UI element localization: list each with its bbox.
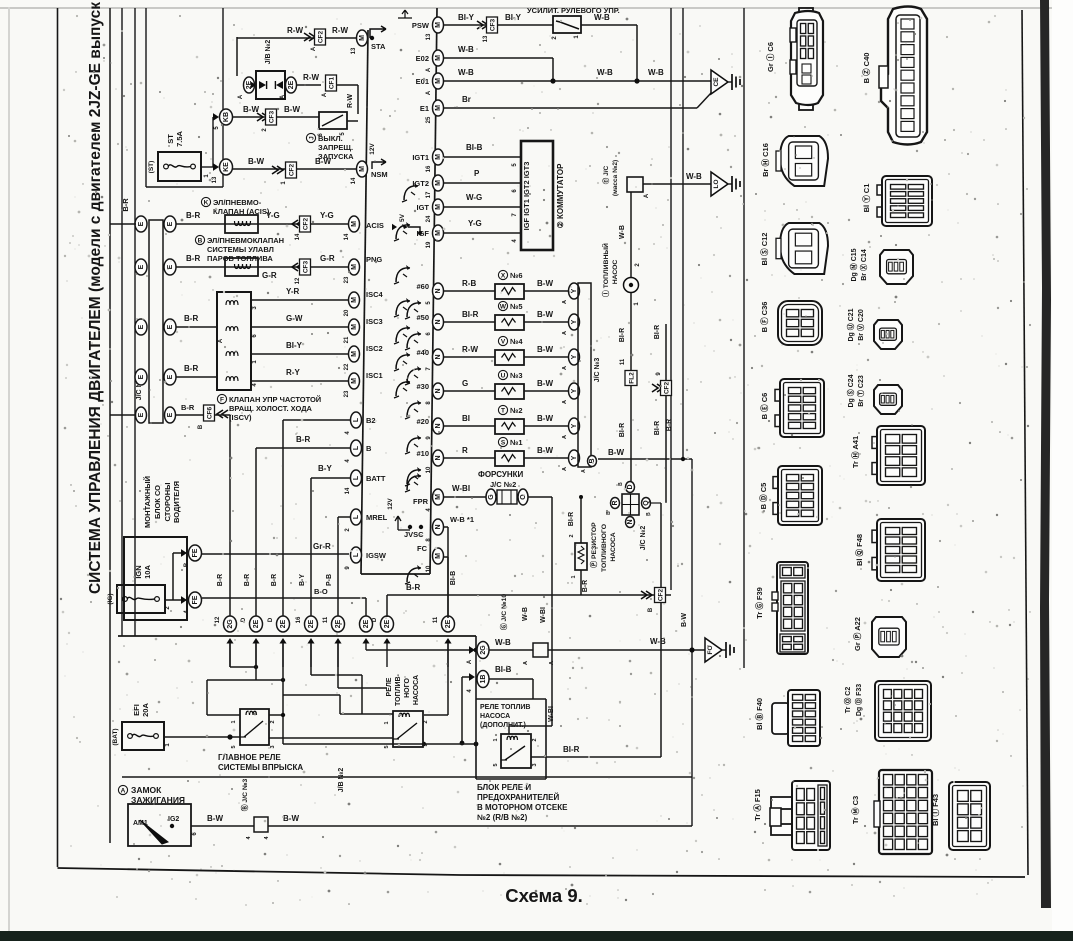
svg-text:BI-B: BI-B: [466, 143, 483, 152]
svg-text:№4: №4: [510, 337, 523, 346]
svg-text:L: L: [353, 417, 360, 422]
svg-text:B-Y: B-Y: [318, 464, 332, 473]
svg-text:2E: 2E: [363, 619, 370, 628]
svg-text:B-W: B-W: [537, 379, 553, 388]
svg-text:B Ⓕ C36: B Ⓕ C36: [759, 302, 769, 333]
svg-text:A: A: [218, 338, 224, 343]
svg-text:N: N: [435, 354, 442, 359]
svg-text:BI-R: BI-R: [462, 310, 479, 319]
svg-text:(ISCV): (ISCV): [229, 413, 252, 422]
svg-text:Y-R: Y-R: [286, 287, 300, 296]
svg-text:СИСТЕМЫ ВПРЫСКА: СИСТЕМЫ ВПРЫСКА: [218, 763, 303, 772]
svg-text:14: 14: [344, 233, 350, 240]
svg-text:CF2: CF2: [318, 30, 325, 43]
svg-text:10A: 10A: [143, 565, 152, 579]
svg-text:CF2: CF2: [658, 588, 665, 601]
svg-text:(IG): (IG): [107, 593, 114, 604]
svg-text:12: 12: [295, 277, 301, 284]
svg-text:25: 25: [426, 116, 432, 123]
svg-text:N: N: [435, 524, 442, 529]
svg-text:РЕЛЕ: РЕЛЕ: [386, 677, 393, 696]
svg-text:ЗАМОК: ЗАМОК: [131, 785, 162, 795]
svg-text:ISC3: ISC3: [366, 317, 383, 326]
svg-text:N: N: [435, 455, 442, 460]
svg-text:Ⓖ J/C №10: Ⓖ J/C №10: [499, 594, 508, 631]
svg-text:M: M: [351, 351, 358, 357]
svg-text:#40: #40: [416, 348, 429, 357]
svg-text:IGT: IGT: [417, 203, 430, 212]
svg-text:E02: E02: [416, 54, 429, 63]
svg-text:B-R: B-R: [406, 583, 420, 592]
svg-text:Dg Ⓤ C21: Dg Ⓤ C21: [846, 308, 855, 341]
svg-text:KE: KE: [223, 162, 230, 172]
svg-text:Bl Ⓢ C12: Bl Ⓢ C12: [759, 233, 769, 266]
svg-text:R: R: [462, 446, 468, 455]
svg-text:21: 21: [344, 336, 350, 343]
svg-text:#50: #50: [416, 313, 429, 322]
svg-text:M: M: [351, 324, 358, 330]
svg-text:B-W: B-W: [537, 414, 553, 423]
svg-text:M: M: [435, 180, 442, 186]
svg-text:(ST): (ST): [148, 161, 155, 174]
svg-text:2E: 2E: [280, 619, 287, 628]
svg-text:5V: 5V: [399, 213, 406, 222]
svg-text:A: A: [121, 787, 126, 794]
svg-text:E1: E1: [420, 104, 429, 113]
svg-text:D: D: [268, 617, 274, 622]
svg-text:(BAT): (BAT): [112, 728, 119, 745]
svg-text:BI-R: BI-R: [568, 512, 575, 526]
svg-text:J/B №2: J/B №2: [337, 768, 345, 793]
svg-text:B: B: [646, 512, 652, 516]
svg-text:17: 17: [426, 191, 432, 198]
svg-text:Y: Y: [571, 388, 578, 393]
svg-text:3: 3: [532, 763, 538, 766]
svg-text:E: E: [167, 324, 174, 329]
svg-text:LO: LO: [713, 179, 720, 188]
svg-text:Y: Y: [571, 455, 578, 460]
svg-text:20: 20: [344, 309, 350, 316]
svg-text:B-R: B-R: [186, 211, 200, 220]
svg-text:N: N: [435, 388, 442, 393]
svg-text:11: 11: [433, 616, 439, 623]
svg-text:M: M: [435, 22, 442, 28]
svg-text:Ⓑ J/C: Ⓑ J/C: [601, 165, 610, 184]
svg-text:БЛОК РЕЛЕ И: БЛОК РЕЛЕ И: [477, 783, 531, 792]
svg-text:W: W: [500, 303, 507, 310]
svg-text:MREL: MREL: [366, 513, 388, 522]
svg-text:W-BI: W-BI: [548, 706, 555, 722]
svg-text:FE: FE: [192, 595, 199, 604]
svg-text:CF3: CF3: [303, 260, 310, 273]
svg-text:В МОТОРНОМ ОТСЕКЕ: В МОТОРНОМ ОТСЕКЕ: [477, 803, 568, 812]
svg-text:A: A: [426, 67, 432, 72]
svg-text:A: A: [644, 193, 650, 198]
svg-text:19: 19: [426, 241, 432, 248]
svg-text:12: 12: [215, 616, 221, 623]
svg-text:1: 1: [571, 575, 577, 578]
svg-text:Y: Y: [571, 319, 578, 324]
svg-text:МОНТАЖНЫЙ: МОНТАЖНЫЙ: [143, 476, 152, 528]
svg-text:Tr Ⓜ C3: Tr Ⓜ C3: [850, 796, 860, 824]
svg-text:P-B: P-B: [326, 574, 333, 586]
svg-text:B: B: [366, 444, 372, 453]
svg-text:R: R: [612, 500, 619, 505]
svg-text:13: 13: [426, 33, 432, 40]
svg-text:G: G: [488, 494, 495, 500]
svg-text:ISC2: ISC2: [366, 344, 383, 353]
svg-text:B Ⓩ C40: B Ⓩ C40: [861, 53, 871, 84]
svg-text:N: N: [435, 423, 442, 428]
svg-text:W-B *1: W-B *1: [450, 515, 474, 524]
svg-text:FC: FC: [417, 544, 428, 553]
svg-text:E: E: [167, 412, 174, 417]
svg-text:L: L: [353, 445, 360, 450]
svg-text:B-R: B-R: [244, 574, 251, 586]
svg-text:W-G: W-G: [466, 193, 482, 202]
svg-text:J/C №3: J/C №3: [593, 358, 601, 383]
svg-text:1: 1: [493, 738, 499, 741]
svg-text:Br: Br: [462, 95, 471, 104]
svg-text:1: 1: [384, 721, 390, 724]
svg-text:J: J: [308, 136, 315, 140]
svg-text:E: E: [167, 221, 174, 226]
svg-text:11: 11: [323, 616, 329, 623]
svg-text:Y: Y: [571, 354, 578, 359]
svg-text:Dg Ⓝ C15: Dg Ⓝ C15: [849, 248, 858, 281]
svg-text:NSM: NSM: [371, 170, 388, 179]
svg-text:L: L: [353, 475, 360, 480]
svg-text:ВЫКЛ.: ВЫКЛ.: [318, 134, 343, 143]
svg-text:B-R: B-R: [121, 198, 130, 212]
svg-text:B-W: B-W: [243, 105, 259, 114]
svg-text:ISC4: ISC4: [366, 290, 384, 299]
svg-text:Bl Ⓨ C1: Bl Ⓨ C1: [861, 184, 871, 213]
svg-text:X: X: [501, 272, 506, 279]
svg-text:A: A: [238, 94, 244, 99]
svg-text:2E: 2E: [253, 619, 260, 628]
svg-text:СИСТЕМЫ УЛАВЛ: СИСТЕМЫ УЛАВЛ: [207, 245, 274, 254]
svg-text:M: M: [351, 378, 358, 384]
svg-text:2: 2: [270, 720, 276, 723]
svg-text:B: B: [198, 237, 203, 244]
svg-text:Br Ⓧ C14: Br Ⓧ C14: [859, 249, 868, 281]
svg-text:Tr Ⓗ A41: Tr Ⓗ A41: [850, 436, 860, 468]
svg-text:12V: 12V: [387, 498, 394, 510]
svg-text:3: 3: [423, 743, 429, 746]
svg-text:W-B: W-B: [648, 68, 664, 77]
svg-text:№2: №2: [510, 406, 523, 415]
svg-text:KB: KB: [223, 112, 230, 122]
svg-text:2G: 2G: [480, 645, 487, 655]
svg-text:12V: 12V: [369, 143, 376, 155]
svg-text:ЗАПРЕЩ.: ЗАПРЕЩ.: [318, 143, 353, 152]
svg-text:M: M: [435, 105, 442, 111]
svg-text:M: M: [435, 154, 442, 160]
svg-text:Q: Q: [643, 500, 650, 506]
svg-text:A: A: [562, 300, 568, 304]
svg-text:M: M: [351, 297, 358, 303]
svg-text:Tr Ⓞ C2: Tr Ⓞ C2: [843, 687, 852, 714]
svg-text:CF2: CF2: [303, 217, 310, 230]
svg-text:B Ⓔ C6: B Ⓔ C6: [759, 393, 769, 420]
svg-text:A: A: [562, 366, 568, 370]
svg-text:№2 (R/B №2): №2 (R/B №2): [477, 813, 528, 822]
svg-text:CF2: CF2: [289, 163, 296, 176]
svg-text:E: E: [138, 264, 145, 269]
svg-text:14: 14: [351, 177, 357, 184]
svg-text:G-R: G-R: [320, 254, 335, 263]
svg-text:20A: 20A: [141, 703, 150, 717]
svg-text:B-W: B-W: [537, 345, 553, 354]
svg-text:A: A: [467, 659, 473, 664]
svg-text:M: M: [435, 78, 442, 84]
svg-text:B: B: [618, 482, 624, 486]
svg-text:BI-B: BI-B: [450, 571, 457, 585]
svg-text:#60: #60: [416, 282, 429, 291]
svg-text:F: F: [220, 396, 224, 403]
svg-text:ГЛАВНОЕ РЕЛЕ: ГЛАВНОЕ РЕЛЕ: [218, 753, 281, 762]
svg-text:K: K: [204, 199, 209, 206]
svg-text:FL2: FL2: [629, 372, 636, 384]
svg-text:Y-G: Y-G: [468, 219, 482, 228]
svg-text:Bl Ⓘ F43: Bl Ⓘ F43: [930, 794, 940, 826]
svg-text:24: 24: [426, 215, 432, 222]
svg-text:Bl Ⓑ F40: Bl Ⓑ F40: [754, 698, 764, 730]
svg-text:ФОРСУНКИ: ФОРСУНКИ: [478, 470, 523, 479]
svg-text:M: M: [351, 221, 358, 227]
svg-text:5: 5: [384, 745, 390, 748]
svg-text:M: M: [351, 264, 358, 270]
svg-text:A: A: [311, 46, 317, 51]
svg-text:A: A: [562, 435, 568, 439]
svg-text:FPR: FPR: [413, 497, 429, 506]
svg-text:№5: №5: [510, 302, 523, 311]
svg-text:1B: 1B: [480, 675, 487, 684]
svg-text:ПАРОВ ТОПЛИВА: ПАРОВ ТОПЛИВА: [207, 254, 273, 263]
svg-text:② КОММУТАТОР: ② КОММУТАТОР: [556, 163, 565, 228]
svg-text:Tr Ⓖ F39: Tr Ⓖ F39: [754, 587, 764, 619]
svg-text:W-B: W-B: [458, 68, 474, 77]
svg-text:14: 14: [295, 233, 301, 240]
svg-text:G: G: [462, 379, 468, 388]
svg-text:ПРЕДОХРАНИТЕЛЕЙ: ПРЕДОХРАНИТЕЛЕЙ: [477, 793, 559, 802]
svg-text:A: A: [549, 661, 555, 665]
svg-text:11: 11: [620, 358, 626, 365]
svg-text:A: A: [562, 331, 568, 335]
svg-text:РЕЛЕ ТОПЛИВ: РЕЛЕ ТОПЛИВ: [480, 704, 530, 711]
svg-text:23: 23: [344, 390, 350, 397]
svg-text:R-B: R-B: [462, 279, 476, 288]
svg-text:Br Ⓗ C16: Br Ⓗ C16: [760, 143, 770, 177]
svg-text:НАСОСА: НАСОСА: [480, 713, 510, 720]
svg-text:B-W: B-W: [284, 105, 300, 114]
svg-text:U: U: [501, 372, 506, 379]
svg-text:PSW: PSW: [412, 21, 430, 30]
svg-text:N: N: [435, 288, 442, 293]
svg-text:Ⓘ ТОПЛИВНЫЙ: Ⓘ ТОПЛИВНЫЙ: [601, 243, 610, 297]
svg-text:BI-R: BI-R: [654, 421, 661, 435]
svg-text:10: 10: [426, 466, 432, 473]
svg-text:ISC1: ISC1: [366, 371, 383, 380]
svg-text:B-R: B-R: [666, 419, 673, 431]
svg-text:22: 22: [344, 363, 350, 370]
svg-text:B-R: B-R: [582, 580, 589, 592]
svg-text:D: D: [627, 484, 634, 489]
svg-text:BI-R: BI-R: [619, 328, 626, 342]
svg-text:V: V: [501, 338, 506, 345]
svg-text:N: N: [627, 519, 634, 524]
svg-text:B-R: B-R: [184, 364, 198, 373]
svg-text:ST: ST: [166, 134, 175, 144]
svg-text:Gr-R: Gr-R: [313, 542, 331, 551]
svg-text:Tr Ⓐ F15: Tr Ⓐ F15: [752, 789, 762, 821]
svg-text:1: 1: [231, 720, 237, 723]
svg-text:ЭЛ/ПНЕВМОКЛАПАН: ЭЛ/ПНЕВМОКЛАПАН: [207, 236, 284, 245]
svg-text:B-R: B-R: [296, 435, 310, 444]
svg-text:#30: #30: [416, 382, 429, 391]
svg-text:E: E: [138, 221, 145, 226]
svg-text:B-W: B-W: [248, 157, 264, 166]
svg-text:НОГО: НОГО: [404, 678, 411, 698]
svg-text:T: T: [501, 407, 505, 414]
svg-text:B-W: B-W: [537, 310, 553, 319]
svg-text:IGSW: IGSW: [366, 551, 387, 560]
svg-text:13: 13: [212, 176, 218, 183]
svg-text:BI-Y: BI-Y: [286, 341, 303, 350]
svg-text:CF6: CF6: [207, 406, 214, 419]
svg-text:M: M: [359, 166, 366, 172]
svg-text:S: S: [501, 439, 506, 446]
svg-text:ACIS: ACIS: [366, 221, 384, 230]
svg-text:КЛАПАН УПР ЧАСТОТОЙ: КЛАПАН УПР ЧАСТОТОЙ: [229, 395, 321, 404]
svg-text:Br Ⓥ C20: Br Ⓥ C20: [856, 309, 865, 341]
svg-text:2G: 2G: [227, 619, 234, 629]
svg-text:G-W: G-W: [286, 314, 303, 323]
svg-text:IGT1: IGT1: [412, 153, 429, 162]
svg-text:M: M: [435, 494, 442, 500]
svg-text:2E: 2E: [308, 619, 315, 628]
svg-text:M: M: [359, 35, 366, 41]
svg-text:НАСОСА: НАСОСА: [413, 675, 420, 705]
svg-text:D: D: [372, 617, 378, 622]
svg-text:(масса №2): (масса №2): [612, 160, 619, 196]
svg-text:W-BI: W-BI: [452, 484, 470, 493]
svg-text:B-R: B-R: [217, 574, 224, 586]
svg-text:Ⓟ РЕЗИСТОР: Ⓟ РЕЗИСТОР: [589, 522, 598, 568]
svg-text:R-W: R-W: [303, 73, 319, 82]
svg-text:B-W: B-W: [537, 279, 553, 288]
svg-text:N: N: [435, 319, 442, 324]
svg-text:J/C №2: J/C №2: [639, 526, 647, 551]
svg-text:НАСОС: НАСОС: [612, 260, 619, 285]
svg-text:CE: CE: [713, 77, 720, 87]
svg-text:ВОДИТЕЛЯ: ВОДИТЕЛЯ: [172, 481, 181, 523]
svg-text:БЛОК СО: БЛОК СО: [153, 485, 162, 519]
svg-text:13: 13: [483, 35, 489, 42]
svg-text:B-W: B-W: [608, 448, 624, 457]
svg-text:A: A: [280, 94, 286, 99]
svg-text:5: 5: [231, 745, 237, 748]
svg-text:CF3: CF3: [269, 110, 276, 123]
svg-text:10: 10: [426, 565, 432, 572]
svg-text:W-B: W-B: [522, 607, 529, 621]
svg-text:A: A: [562, 400, 568, 404]
svg-text:E01: E01: [416, 77, 429, 86]
svg-text:M: M: [435, 553, 442, 559]
svg-text:R-W: R-W: [332, 26, 348, 35]
svg-text:CF1: CF1: [329, 76, 336, 89]
svg-text:W-B: W-B: [458, 45, 474, 54]
svg-text:A: A: [426, 90, 432, 95]
svg-text:B-W: B-W: [681, 613, 688, 627]
svg-text:A: A: [322, 92, 328, 97]
svg-text:M: M: [435, 204, 442, 210]
svg-text:IGF IGT1 IGT2 IGT3: IGF IGT1 IGT2 IGT3: [522, 162, 531, 231]
svg-text:A: A: [523, 661, 529, 665]
svg-text:ТОПЛИВНОГО: ТОПЛИВНОГО: [601, 524, 608, 572]
svg-text:W-B: W-B: [594, 13, 610, 22]
svg-text:2E: 2E: [445, 619, 452, 628]
svg-text:Схема 9.: Схема 9.: [505, 885, 583, 906]
svg-text:16: 16: [296, 616, 302, 623]
svg-text:M: M: [435, 230, 442, 236]
svg-text:BI-Y: BI-Y: [505, 13, 522, 22]
svg-text:P: P: [474, 169, 480, 178]
svg-text:№1: №1: [510, 438, 523, 447]
svg-text:BI: BI: [462, 414, 470, 423]
svg-text:Ⓑ J/C №3: Ⓑ J/C №3: [240, 779, 249, 812]
svg-text:W-B: W-B: [619, 225, 626, 239]
svg-text:E: E: [167, 374, 174, 379]
svg-text:Gr Ⓘ C6: Gr Ⓘ C6: [765, 42, 775, 72]
svg-text:Y-G: Y-G: [320, 211, 334, 220]
svg-text:B-R: B-R: [184, 314, 198, 323]
svg-text:J/B №2: J/B №2: [264, 40, 272, 65]
svg-text:Br Ⓣ C23: Br Ⓣ C23: [856, 375, 865, 407]
svg-text:BATT: BATT: [366, 474, 386, 483]
svg-text:B-W: B-W: [283, 814, 299, 823]
svg-text:M: M: [435, 55, 442, 61]
svg-text:R-Y: R-Y: [286, 368, 300, 377]
svg-text:ВРАЩ. ХОЛОСТ. ХОДА: ВРАЩ. ХОЛОСТ. ХОДА: [229, 404, 313, 413]
svg-text:#20: #20: [416, 417, 429, 426]
svg-text:B-W: B-W: [315, 157, 331, 166]
svg-text:BI-R: BI-R: [563, 745, 580, 754]
svg-text:IG2: IG2: [168, 816, 179, 823]
svg-text:2E: 2E: [288, 80, 295, 89]
svg-text:BI-B: BI-B: [495, 665, 512, 674]
svg-text:CF3: CF3: [490, 18, 497, 31]
svg-text:B-R: B-R: [181, 403, 195, 412]
svg-text:A: A: [562, 467, 568, 471]
svg-text:W-B: W-B: [495, 638, 511, 647]
svg-text:R-W: R-W: [287, 26, 303, 35]
svg-text:23: 23: [344, 276, 350, 283]
svg-text:СИСТЕМА УПРАВЛЕНИЯ ДВИГАТЕЛЕМ: СИСТЕМА УПРАВЛЕНИЯ ДВИГАТЕЛЕМ (модели с …: [87, 2, 104, 594]
svg-text:BI-Y: BI-Y: [458, 13, 475, 22]
svg-text:E: E: [138, 374, 145, 379]
svg-text:№6: №6: [510, 271, 523, 280]
svg-text:L: L: [353, 552, 360, 557]
svg-text:3: 3: [270, 745, 276, 748]
svg-text:№3: №3: [510, 371, 523, 380]
svg-text:B: B: [184, 562, 190, 567]
svg-text:PNG: PNG: [366, 255, 382, 264]
svg-text:R-W: R-W: [347, 94, 354, 108]
svg-text:IGN: IGN: [134, 565, 143, 578]
svg-text:BI-R: BI-R: [619, 423, 626, 437]
